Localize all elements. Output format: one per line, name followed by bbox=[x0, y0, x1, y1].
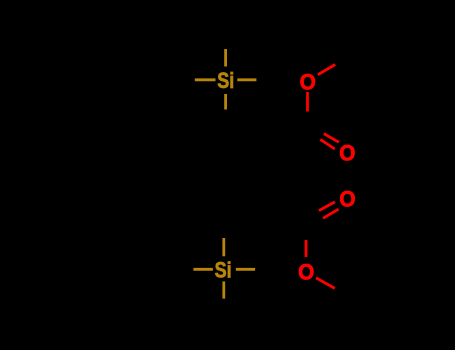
bond Si1-CH3 up bbox=[224, 49, 227, 67]
bond Si2-C ring up bbox=[222, 238, 225, 256]
bottom ester group bbox=[306, 202, 339, 289]
bottom trimethylsilyl group bbox=[193, 238, 255, 299]
bond O1-C carbonyl bbox=[306, 92, 309, 112]
double bond C=O3 line a bbox=[319, 202, 335, 211]
bond O4-CH3 bbox=[316, 278, 335, 289]
bond Si1-C ring down bbox=[224, 94, 227, 110]
svg-text:Si: Si bbox=[215, 259, 232, 283]
bond Si2-CH3 right bbox=[236, 268, 255, 271]
svg-text:O: O bbox=[298, 259, 314, 285]
double bond C=O2 line b bbox=[320, 139, 335, 149]
svg-text:O: O bbox=[300, 68, 316, 94]
top trimethylsilyl group bbox=[195, 49, 257, 110]
bond O4-C carbonyl bbox=[305, 240, 308, 257]
svg-text:O: O bbox=[339, 140, 355, 166]
bond Si2-CH3 down bbox=[222, 281, 225, 298]
svg-text:O: O bbox=[339, 186, 355, 212]
double bond C=O2 line a bbox=[324, 134, 339, 143]
bond Si1-CH3 right bbox=[237, 78, 256, 81]
top ester group bbox=[308, 65, 339, 150]
double bond C=O3 line b bbox=[323, 209, 339, 218]
bond Si1-CH3 left bbox=[195, 78, 216, 81]
bond Si2-CH3 left bbox=[193, 268, 213, 271]
bond O1-CH3 bbox=[318, 65, 335, 75]
svg-text:Si: Si bbox=[217, 69, 234, 93]
